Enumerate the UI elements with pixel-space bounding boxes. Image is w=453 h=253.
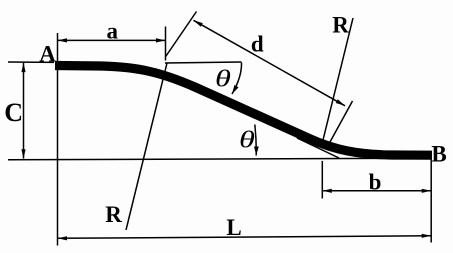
svg-text:a: a (107, 19, 119, 44)
dimension b line (322, 190, 431, 192)
arrowhead d end (336, 99, 345, 106)
svg-text:d: d (251, 32, 264, 57)
arrowhead C top (21, 63, 25, 73)
angle theta lower arc (255, 125, 256, 156)
wire R lower leader line (126, 63, 167, 230)
dimension L line (58, 236, 432, 239)
arrowhead L right (422, 234, 432, 238)
arrowhead theta lower (254, 147, 259, 156)
svg-text:R: R (105, 202, 122, 227)
wire d end extension line (330, 101, 353, 142)
wire theta upper reference line (165, 62, 242, 63)
dimension d line (194, 20, 346, 106)
wire tangent extension at lower bend (297, 138, 339, 158)
wire top reference line at A level (8, 61, 54, 63)
arrowhead b right (422, 189, 432, 193)
wire b right extension line (430, 159, 432, 243)
arrowhead a right (156, 38, 166, 42)
dimension C line (23, 63, 25, 159)
wire baseline at B level (8, 158, 432, 160)
svg-text:B: B (431, 142, 446, 167)
arrowhead d start (194, 20, 203, 27)
arrowhead C bottom (21, 149, 25, 159)
wire d start extension line (166, 12, 197, 57)
wire a left extension line (57, 33, 59, 246)
arrowhead theta upper (232, 85, 239, 94)
angle theta upper arc (232, 63, 242, 95)
wire a right extension line (165, 27, 167, 61)
svg-text:C: C (4, 98, 23, 127)
svg-text:θ: θ (239, 127, 255, 153)
svg-text:L: L (226, 215, 241, 240)
S-curve profile A to B (55, 66, 432, 156)
wire b left extension line (321, 161, 323, 199)
svg-text:θ: θ (215, 66, 231, 92)
svg-text:A: A (39, 42, 56, 67)
svg-text:R: R (332, 13, 349, 38)
arrowhead L left (58, 236, 68, 240)
wire R upper leader line (323, 18, 353, 140)
dimension a line (58, 39, 166, 41)
arrowhead a left (58, 38, 68, 42)
svg-text:b: b (369, 170, 382, 195)
arrowhead b left (322, 189, 332, 193)
